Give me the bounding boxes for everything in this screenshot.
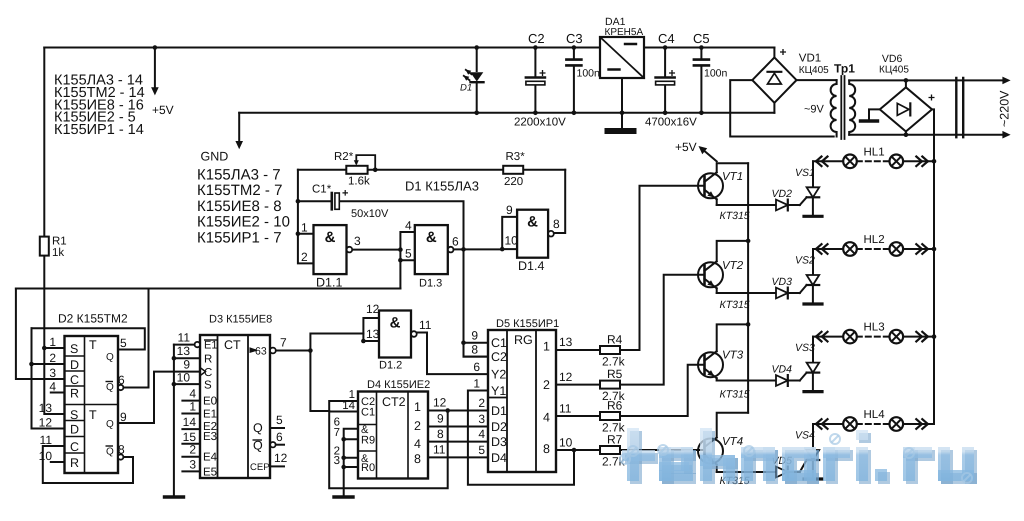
svg-text:R1: R1 [52, 236, 67, 248]
svg-text:13: 13 [559, 335, 573, 349]
svg-text:6: 6 [473, 360, 480, 374]
svg-text:R4: R4 [607, 333, 623, 347]
wire C1 left [298, 200, 331, 202]
svg-text:3: 3 [478, 412, 485, 426]
wire VS4 cathode [812, 460, 814, 479]
watermark letter r2 [906, 450, 935, 484]
wire feedback long [16, 288, 401, 290]
transistor VT2 КТ315 [698, 262, 723, 287]
svg-text:7: 7 [280, 336, 287, 350]
svg-text:E3: E3 [203, 431, 217, 443]
svg-text:~220V: ~220V [998, 90, 1012, 127]
svg-text:C2: C2 [491, 350, 507, 364]
svg-text:12: 12 [366, 302, 380, 316]
gate D1.3 [415, 225, 448, 274]
svg-text:&: & [325, 229, 336, 246]
svg-text:D1.1: D1.1 [316, 276, 342, 290]
register D5 К155ИР1 box [488, 330, 556, 472]
svg-text:12: 12 [433, 396, 447, 410]
bridge rectifier VD6 [880, 87, 932, 131]
wire R1 to D2 pin1/pin13 [44, 256, 64, 414]
svg-text:4: 4 [405, 219, 412, 233]
svg-text:D: D [70, 423, 79, 437]
wire GND bottom rail [239, 112, 774, 114]
wire D1.3 out to D1.4 [452, 248, 502, 250]
svg-text:+: + [342, 188, 348, 200]
svg-text:D1.2: D1.2 [379, 360, 402, 372]
svg-text:11: 11 [40, 433, 53, 447]
ground VD6 [861, 119, 878, 122]
connector arrows HL4 right [916, 419, 928, 429]
junction R2 wiper [373, 168, 378, 173]
svg-text:Y2: Y2 [491, 368, 506, 382]
wire C5 branch [700, 48, 702, 113]
thyristor VS2 [807, 275, 820, 285]
svg-text:4: 4 [543, 411, 550, 425]
junction D1.4 bracket [500, 247, 505, 252]
svg-text:HL3: HL3 [864, 322, 885, 334]
wire C4 branch [664, 48, 666, 113]
svg-text:3: 3 [354, 234, 361, 248]
wire VS2 gate [800, 285, 807, 293]
wire R4 to VT1 base [620, 186, 705, 350]
GND arrow down [238, 113, 240, 142]
svg-text:К155ИР1 - 14: К155ИР1 - 14 [54, 122, 144, 138]
svg-text:2200x10V: 2200x10V [514, 117, 566, 129]
watermark letter u [941, 450, 977, 484]
wire VS1 gate [800, 197, 807, 205]
wire D5 pin10 to R7 [556, 449, 600, 451]
svg-text:12: 12 [559, 370, 573, 384]
svg-text:T: T [89, 408, 97, 422]
junction LED rails [474, 45, 479, 115]
D3 pin11 bubble [195, 342, 200, 347]
junction C4 rails [663, 45, 668, 115]
svg-text:D1 К155ЛА3: D1 К155ЛА3 [405, 179, 479, 194]
svg-text:10: 10 [559, 436, 573, 450]
lamp HL2 left bulb [843, 242, 857, 256]
svg-text:4: 4 [478, 427, 485, 441]
svg-text:13: 13 [39, 401, 53, 415]
svg-text:C3: C3 [566, 31, 583, 46]
svg-text:К155ЛА3 - 7: К155ЛА3 - 7 [197, 167, 281, 184]
svg-text:7: 7 [334, 427, 340, 439]
wire VT4 collector up [717, 413, 748, 438]
ground DA1 [608, 128, 634, 134]
svg-text:+5V: +5V [675, 140, 697, 154]
svg-text:КТ315: КТ315 [720, 210, 750, 222]
ground D4 [334, 495, 353, 498]
wire VS1 cathode [812, 197, 814, 216]
connector arrows HL2 right [916, 244, 928, 254]
svg-text:6: 6 [118, 373, 125, 387]
wire D3 E stub 14 [182, 428, 200, 430]
wire D2 Qbar1 up to feedback [123, 289, 148, 388]
svg-text:C4: C4 [658, 31, 675, 46]
wire D3 E stub 4 [182, 400, 200, 402]
svg-text:8: 8 [118, 443, 125, 457]
capacitor C2 [526, 76, 545, 79]
wire D5 pin12 to R5 [556, 384, 600, 386]
wire DA1 ground pin [621, 78, 623, 129]
svg-text:Q: Q [253, 421, 263, 435]
svg-text:E1: E1 [203, 409, 217, 421]
wire VT1 collector up [717, 163, 748, 172]
svg-text:D: D [70, 358, 79, 372]
ground VS3 [804, 390, 822, 393]
svg-text:1.6k: 1.6k [348, 176, 370, 188]
svg-text:VS2: VS2 [795, 255, 815, 267]
arrow 220V bottom [1002, 131, 1010, 139]
svg-text:C: C [70, 373, 79, 387]
svg-text:8: 8 [437, 427, 444, 441]
label D2 Qbar lower bar [106, 445, 114, 447]
lamp HL3 right bulb [890, 330, 904, 344]
wire VD4 to gate [788, 380, 800, 382]
ground VS1 [804, 215, 822, 218]
connector arrows HL3 right [916, 332, 928, 342]
svg-text:VD4: VD4 [772, 364, 793, 376]
svg-text:13: 13 [366, 327, 380, 341]
wire D3 Q stub [270, 427, 284, 429]
svg-text:E1: E1 [204, 340, 217, 352]
wire D1.1 pin1 stub [298, 233, 314, 235]
wire D1.2 out to D5 Y2 [417, 333, 488, 375]
svg-text:VS4: VS4 [795, 430, 815, 442]
D2 pin8 Qbar bubble [118, 454, 123, 459]
svg-text:К155ИЕ8 - 8: К155ИЕ8 - 8 [197, 198, 282, 215]
svg-text:Q: Q [106, 382, 114, 393]
svg-text:R: R [204, 354, 212, 366]
transformer Tr1 primary winding [831, 80, 837, 136]
wire D2 Q2 to D3 clock [118, 372, 200, 423]
svg-text:10: 10 [177, 371, 191, 385]
svg-text:C: C [204, 367, 212, 379]
wire D2 pin1 S stub [44, 347, 64, 349]
svg-text:C5: C5 [693, 31, 710, 46]
wire R7 to VT4 base [620, 450, 705, 451]
transistor VT1 КТ315 [698, 173, 723, 198]
wire VT2 emitter drop [716, 288, 718, 293]
wire VT3 emitter drop [716, 378, 718, 380]
svg-text:R2*: R2* [334, 151, 354, 163]
wire D3 left rail down [173, 345, 175, 496]
svg-text:10: 10 [505, 234, 519, 248]
watermark letter t [625, 431, 658, 484]
junction C2 rails [533, 45, 538, 115]
wire VS3 cathode [812, 373, 814, 392]
resistor R6 [600, 412, 620, 420]
svg-text:VD1: VD1 [799, 53, 821, 65]
svg-text:VD6: VD6 [882, 53, 903, 65]
junction R1 line at D2 S [42, 346, 47, 351]
D2 pin6 Qbar bubble [118, 385, 123, 390]
svg-text:C1*: C1* [312, 184, 332, 196]
watermark letter h [703, 431, 738, 484]
wire VS2 anode [812, 249, 814, 275]
svg-text:4: 4 [189, 387, 196, 401]
svg-text:4: 4 [414, 437, 421, 451]
junction collector rail [746, 239, 751, 327]
wire feedback to D2 C1 [16, 289, 65, 380]
svg-text:15: 15 [183, 430, 197, 444]
svg-text:D1: D1 [491, 404, 507, 418]
svg-text:E0: E0 [203, 396, 217, 408]
wire D2 pin2 stub [32, 363, 65, 365]
counter D4 К155ИЕ2 box [358, 392, 428, 479]
watermark letter a [785, 450, 819, 484]
svg-text:14: 14 [342, 400, 355, 412]
svg-text:R0: R0 [361, 462, 375, 474]
wire HL2 dashed lamp link [857, 248, 890, 250]
svg-text:R: R [70, 456, 79, 470]
svg-text:50x10V: 50x10V [351, 208, 389, 220]
connector arrows HL1 left [816, 157, 828, 167]
wire HL3 dashed lamp link [857, 336, 890, 338]
svg-text:C2: C2 [528, 31, 545, 46]
wire D2 D-inputs link [32, 328, 65, 428]
lamp HL1 right bulb [890, 155, 904, 169]
svg-text:Q: Q [106, 419, 114, 430]
svg-text:1: 1 [543, 340, 550, 354]
wire D3 pin13 stub [174, 357, 200, 359]
svg-text:5: 5 [405, 247, 412, 261]
wire VD1 ac left loop [730, 80, 834, 136]
svg-text:9: 9 [120, 410, 127, 424]
svg-text:9: 9 [506, 203, 513, 217]
watermark letter n [744, 450, 778, 484]
junction pin10 node [572, 448, 577, 453]
junction osc left [296, 199, 301, 236]
svg-text:VT4: VT4 [722, 436, 743, 448]
junction VD6 taps [904, 78, 909, 137]
svg-text:4: 4 [49, 380, 56, 394]
R2 wiper arm [356, 155, 375, 170]
svg-text:13: 13 [177, 344, 191, 358]
label D2 Qbar upper bar [106, 381, 114, 383]
svg-text:14: 14 [183, 415, 197, 429]
wire secondary top to 220V [849, 79, 1003, 81]
D3 pin6 bubble [270, 442, 275, 447]
svg-text:11: 11 [433, 443, 446, 457]
svg-text:1: 1 [414, 400, 421, 414]
wire D3 E stub 1 [182, 413, 200, 415]
svg-text:R5: R5 [607, 367, 623, 381]
svg-text:8: 8 [414, 452, 421, 466]
bridge rectifier VD1 [752, 57, 796, 102]
wire D3 E stub 3 [182, 470, 200, 472]
svg-text:1: 1 [189, 400, 196, 414]
wire VS2 cathode [812, 285, 814, 304]
svg-text:1: 1 [473, 377, 480, 391]
svg-text:КРЕН5А: КРЕН5А [605, 27, 644, 38]
wire VT4 emitter to VD5 [717, 471, 776, 473]
wire LED D1 branch [476, 48, 478, 113]
connector arrows HL3 left [816, 332, 828, 342]
wire D4 pin9 to D5 D2 [428, 426, 488, 428]
svg-text:6: 6 [276, 430, 283, 444]
svg-text:+: + [780, 45, 787, 59]
svg-text:1: 1 [301, 221, 308, 235]
junction D1.3 input bracket [398, 247, 403, 252]
svg-text:VS3: VS3 [795, 342, 815, 354]
ground D3 [165, 495, 184, 498]
svg-text:11: 11 [178, 331, 191, 345]
wire D5 pin11 to R6 [556, 415, 600, 417]
diode VD3 [776, 288, 788, 299]
wire HL1 row [813, 160, 934, 162]
wire D3 out7 to junction [276, 350, 311, 352]
svg-text:8: 8 [543, 442, 550, 456]
arrow 220V top [1002, 77, 1010, 85]
wire C1 to D1.4 input vertical [339, 201, 488, 356]
wire gnd rail to VD1 minus [773, 103, 775, 113]
wire D1.3 input bracket [400, 232, 414, 289]
svg-text:2: 2 [478, 396, 485, 410]
+5V arrow down [154, 48, 156, 90]
resistor R3 [503, 166, 523, 174]
svg-text:D4 К155ИЕ2: D4 К155ИЕ2 [367, 379, 430, 391]
wire VD5 to gate [788, 471, 800, 473]
D3 pin7 bubble [270, 348, 276, 354]
svg-text:К155ТМ2 - 7: К155ТМ2 - 7 [197, 182, 282, 199]
svg-text:D4: D4 [491, 451, 507, 465]
wire +5V top rail [44, 47, 774, 49]
wire VD6 left to ground [869, 109, 880, 119]
wire rail to VD1 plus [773, 48, 775, 58]
wire VD6 right rail down [932, 109, 934, 424]
transformer Tr1 core [841, 76, 844, 139]
gate D1.2 [379, 311, 411, 358]
diode VD4 [776, 375, 788, 386]
svg-text:3: 3 [189, 457, 196, 471]
wire D5 Y1 loop [468, 391, 574, 485]
svg-text:2: 2 [189, 443, 196, 457]
svg-text:3: 3 [49, 366, 56, 380]
svg-text:E4: E4 [203, 452, 218, 464]
capacitor C4 [656, 76, 675, 79]
wire VS3 anode [812, 337, 814, 363]
thyristor VS4 [807, 450, 820, 460]
wire D3 Qbar stub [276, 444, 284, 446]
svg-text:VT3: VT3 [722, 350, 744, 362]
wire D3 E stub 2 [182, 456, 200, 458]
ground VS2 [804, 302, 822, 305]
svg-text:VS1: VS1 [795, 167, 815, 179]
svg-text:3: 3 [334, 455, 340, 467]
gate D1.1 [314, 225, 347, 274]
junction D1.2 bracket [361, 339, 366, 344]
wire VD2 to gate [788, 204, 800, 206]
svg-text:D1.4: D1.4 [518, 259, 544, 273]
wire D2 pin4 stub [51, 392, 65, 394]
svg-text:Y1: Y1 [491, 384, 506, 398]
transistor VT4 КТ315 [698, 439, 723, 464]
wire D4 R-inputs bracket [344, 429, 358, 496]
wire D2 Q1 to D inputs [32, 328, 145, 349]
D3 output 63 marker [250, 347, 259, 353]
wire VT1 emitter drop [716, 199, 718, 205]
svg-text:11: 11 [559, 402, 572, 416]
wire R5 to VT2 base [620, 275, 705, 385]
svg-text:2: 2 [49, 351, 56, 365]
svg-text:5: 5 [276, 413, 283, 427]
junction right rail HL rows [932, 159, 937, 339]
wire D1.4 input bracket [502, 217, 517, 249]
svg-text:63: 63 [255, 346, 267, 358]
svg-text:10: 10 [39, 449, 53, 463]
wire VS1 anode [812, 161, 814, 187]
svg-text:КЦ405: КЦ405 [879, 65, 909, 76]
svg-text:Q: Q [106, 447, 114, 458]
wire D3 E stub 15 [182, 443, 200, 445]
lamp HL4 right bulb [890, 417, 904, 431]
wire VD6 top tap [905, 80, 907, 87]
svg-text:RG: RG [514, 333, 533, 347]
svg-text:D3: D3 [491, 435, 507, 449]
wire secondary bottom to 220V [849, 134, 1003, 136]
wire HL3 row [813, 336, 934, 338]
wire D3 pin11 to left rail [174, 344, 195, 346]
capacitor C5 [694, 60, 709, 66]
wire D4 C-input bracket [329, 401, 448, 488]
wire collector rail [747, 163, 749, 413]
wire C2 branch [534, 48, 536, 113]
thyristor VS3 [807, 363, 820, 373]
flip-flop D2 К155ТМ2 box [65, 336, 119, 473]
svg-text:5: 5 [120, 336, 127, 350]
svg-text:+5V: +5V [152, 103, 174, 117]
junction D4 R bracket [341, 437, 346, 469]
svg-text:S: S [70, 408, 78, 422]
svg-text:100n: 100n [577, 68, 601, 80]
wire VS4 gate [800, 460, 807, 472]
svg-text:2: 2 [414, 419, 421, 433]
svg-text:СЕР: СЕР [250, 462, 270, 473]
resistor R4 [600, 346, 620, 354]
svg-text:VT1: VT1 [722, 171, 743, 183]
regulator DA1 КРЕН5А [600, 37, 644, 78]
diode VD2 [776, 200, 788, 211]
wire R6 to VT3 base [620, 365, 705, 416]
wire D4 pin12 to D5 D1 [428, 410, 488, 412]
lamp HL3 left bulb [843, 330, 857, 344]
svg-text:R3*: R3* [506, 151, 526, 163]
junction D2 D1 tap [29, 362, 34, 367]
wire R3 to D1.4 out [553, 170, 565, 233]
svg-text:C1: C1 [361, 407, 375, 419]
svg-text:R: R [70, 387, 79, 401]
transistor VT3 КТ315 [698, 352, 723, 377]
+5V arrow at VT1 [702, 149, 717, 162]
lamp HL1 left bulb [843, 155, 857, 169]
wire D4 pin8 to D5 D3 [428, 441, 488, 443]
resistor R7 [600, 446, 620, 454]
svg-text:1k: 1k [52, 247, 64, 259]
wire VD3 to gate [788, 292, 800, 294]
svg-text:D1.3: D1.3 [419, 278, 442, 290]
wire junction up to D1.2 [310, 334, 363, 351]
svg-text:S: S [70, 342, 78, 356]
svg-text:1: 1 [49, 335, 56, 349]
resistor R1 [40, 237, 49, 256]
wire VT3 emitter to VD4 [717, 380, 776, 382]
D3 clock edge marker [200, 368, 206, 376]
svg-text:VD2: VD2 [772, 188, 793, 200]
svg-text:CT2: CT2 [382, 395, 406, 409]
junction C3 rails [572, 45, 577, 115]
svg-text:C: C [70, 440, 79, 454]
